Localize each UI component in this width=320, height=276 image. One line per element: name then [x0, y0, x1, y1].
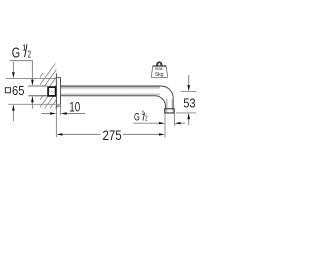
white pipe band through wall [39, 87, 48, 96]
wall face line [55, 73, 57, 108]
53 dim up arrow [188, 119, 190, 125]
svg-text:275: 275 [103, 128, 122, 143]
outer bend curve [161, 86, 173, 109]
max 5kg weight icon [156, 61, 163, 66]
svg-text:2: 2 [145, 114, 148, 123]
flange (escutcheon, side view) [56, 78, 60, 106]
svg-text:53: 53 [183, 96, 195, 111]
inlet centerline dots [49, 91, 55, 93]
53 dim down arrow [188, 75, 190, 86]
label square 65 [5, 88, 10, 93]
svg-text:G: G [134, 112, 140, 124]
G1/2 leader underline [10, 60, 33, 62]
svg-text:2: 2 [28, 49, 32, 60]
inner bend curve [155, 96, 166, 109]
G1/2 outlet dim underline + left arrow [133, 122, 159, 124]
wall face ext line (down) [55, 109, 57, 138]
tube body shading [61, 87, 160, 96]
outlet right ext line [174, 113, 176, 126]
square-65 dim down arrow [12, 62, 14, 72]
G1/2 outlet dim right arrow [180, 122, 185, 124]
svg-text:5kg: 5kg [155, 72, 163, 78]
square-65 dim up arrow [12, 110, 14, 121]
svg-text:max.: max. [155, 66, 164, 71]
shower arm tube top edge [28, 85, 47, 87]
svg-text:65: 65 [12, 83, 24, 98]
shower arm tube bottom edge [29, 95, 48, 97]
square-65 extension line top [6, 77, 57, 79]
275 dim line [61, 133, 101, 135]
G1/2 dim line down to tube top [31, 61, 33, 80]
square-65 extension line bottom [8, 103, 60, 105]
G1/2 dim up arrow to tube bottom [31, 102, 33, 109]
svg-text:10: 10 [69, 99, 80, 114]
downpipe shading [166, 99, 173, 109]
10 dim left arrow [41, 113, 51, 115]
outlet thread nipple [165, 109, 175, 113]
wall hatching [6, 62, 89, 117]
svg-text:G: G [12, 44, 20, 61]
10 dim: flange face ext line [60, 104, 62, 115]
G1/2 inlet square [48, 87, 56, 96]
53 dim top ext line [181, 90, 196, 92]
10 dim right arrow [66, 113, 85, 115]
nipple shading [165, 109, 174, 112]
275 right ext line [164, 113, 166, 137]
53 dim bottom ext line [176, 112, 196, 114]
